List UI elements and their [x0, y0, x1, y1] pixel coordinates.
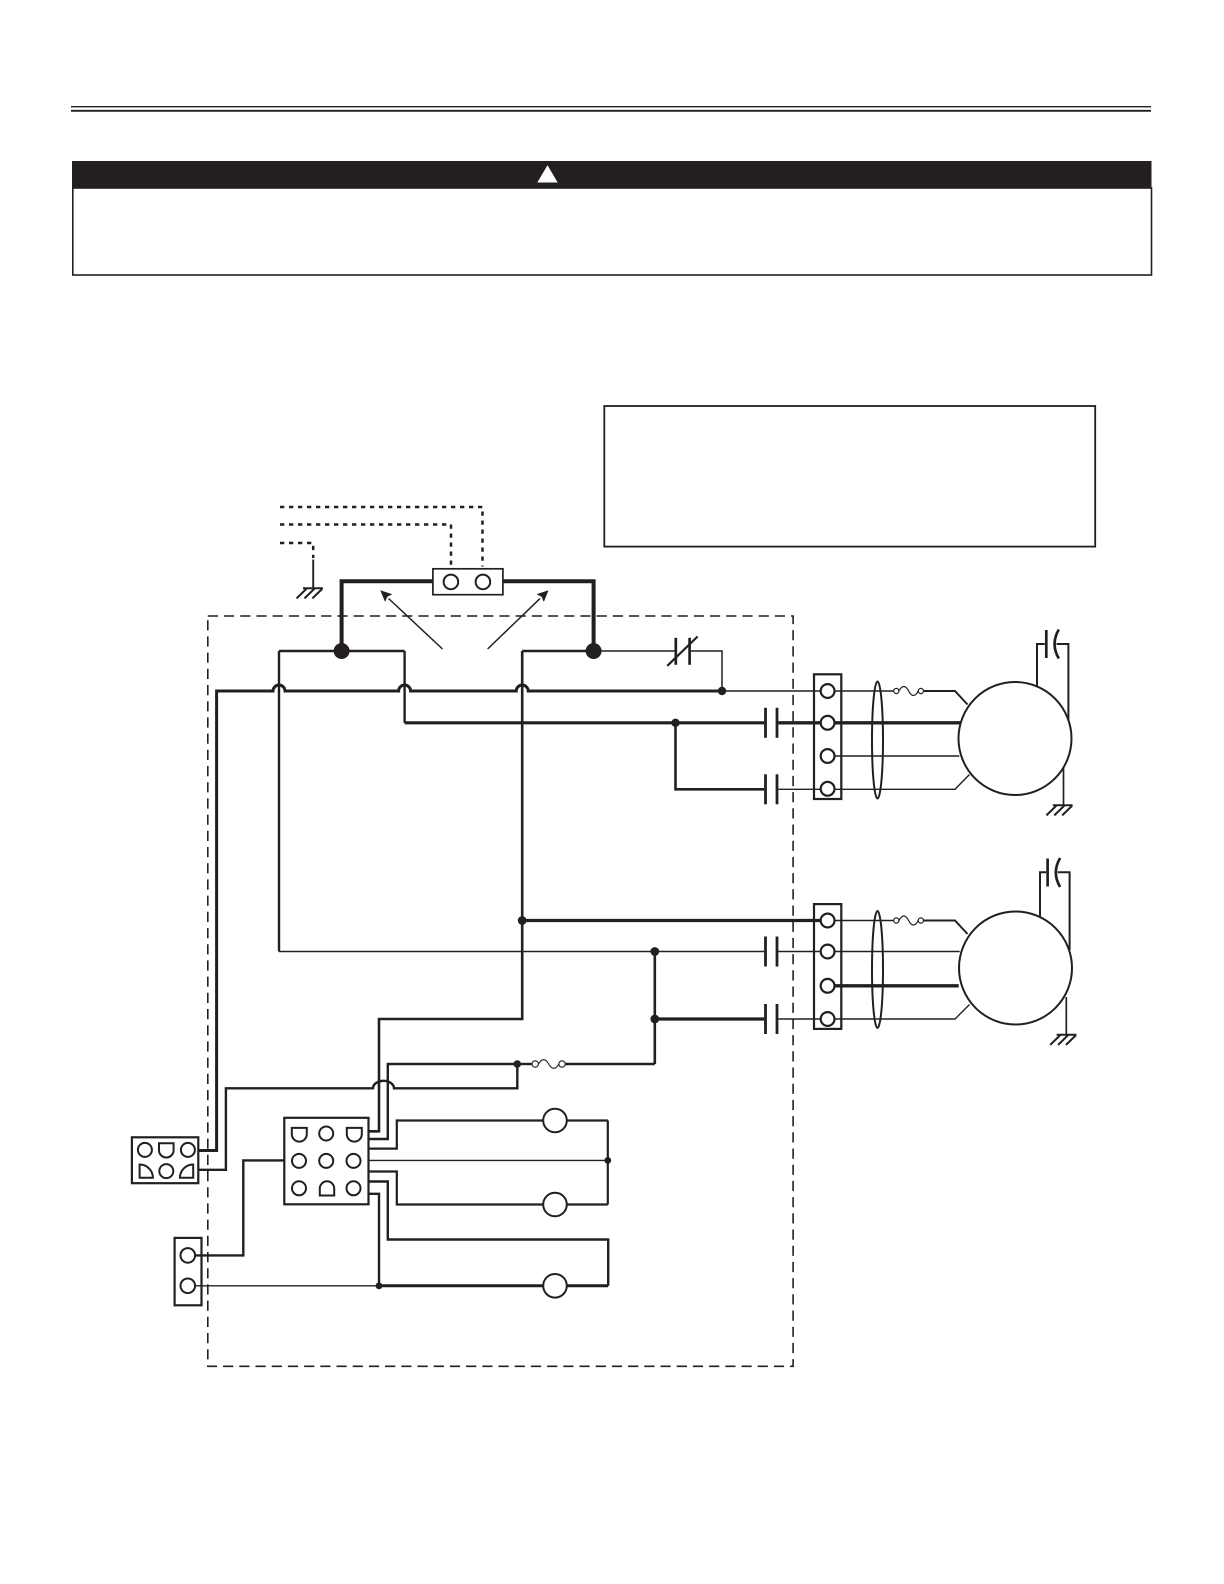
relay stub C to lamp1 — [369, 1121, 544, 1149]
harness loop ellipse 2 — [872, 911, 883, 1028]
wire: J4 down to J5 and to fuse line — [653, 952, 656, 1065]
relay pin r1c3 (keyed) — [347, 1128, 362, 1142]
relay pin r2c1 — [292, 1154, 306, 1168]
node J6 (fuse line tap) — [514, 1060, 522, 1068]
ground symbol (top left) — [297, 588, 323, 598]
wire: CN2 pin1 to relay row2 — [195, 1160, 284, 1255]
note box — [604, 406, 1095, 547]
dotted leader line 2 — [280, 525, 451, 567]
right rail (lamp1-lamp2) — [607, 1121, 609, 1205]
node L1 (left junction dot) — [334, 643, 350, 659]
wire: CN2 pin2 to lamp3 line (thin) — [195, 1285, 376, 1287]
lamp 2 — [543, 1193, 567, 1217]
wire TB1 row3 to motor1 — [834, 755, 959, 757]
wire: motor2 row2 thin from left vertical — [279, 951, 764, 953]
node J7 (rail tap) — [604, 1157, 611, 1164]
feed wire right (thick) — [503, 581, 594, 652]
lamp 1 — [543, 1109, 567, 1133]
wire fuse to motor2 (with bend) — [924, 921, 968, 935]
CN2 pin 2 — [181, 1279, 196, 1294]
CN6 pin r1c3 — [181, 1143, 195, 1157]
thermal cutout wire out — [691, 651, 722, 691]
connector CN2 (2-pin) — [175, 1238, 202, 1305]
wire: C1b to terminal row4 and motor1 — [778, 775, 969, 790]
node J2 (motor1 row4 tap) — [671, 719, 679, 727]
wire: C2b to terminal row4 and motor2 — [778, 1005, 969, 1020]
arrow left — [389, 599, 443, 650]
dashed enclosure box — [208, 616, 793, 1366]
wire TB2 row3 to motor2 (thick) — [834, 984, 959, 987]
relay pin r2c3 — [347, 1154, 361, 1168]
node J8 (lamp3 line tap) — [376, 1282, 383, 1289]
dotted leader line 3 — [280, 543, 313, 558]
TB2 terminal 2 — [821, 945, 835, 959]
power connector pin 1 — [444, 575, 459, 590]
relay stub E to lamp2 — [369, 1172, 544, 1205]
right node bracket wire — [522, 650, 593, 652]
wire lamp2 to right rail — [567, 1203, 608, 1205]
relay block (9-pin) — [284, 1118, 368, 1205]
motor1 ground symbol — [1046, 805, 1072, 815]
feed wire left (thick) — [342, 581, 433, 652]
node J4 (upper dot on x=654.8) — [650, 947, 659, 956]
motor2 ground lead — [1065, 997, 1067, 1035]
relay pin r3c2 (keyed) — [320, 1181, 334, 1195]
terminal block TB2 — [814, 904, 841, 1029]
relay pin r1c1 (keyed) — [292, 1128, 307, 1142]
wire: C1a to terminal row2 and motor1 (thick) — [778, 721, 960, 724]
lamp 3 — [543, 1274, 567, 1298]
motor2 run capacitor — [1040, 858, 1070, 950]
warning banner bar — [72, 161, 1152, 188]
TB2 terminal 3 — [821, 979, 835, 993]
node J1 (bus to terminal row1) — [718, 687, 726, 695]
TB1 terminal 3 — [821, 749, 835, 763]
ground lead (top left) — [312, 560, 314, 589]
TB2 terminal 1 — [821, 914, 835, 928]
motor1 ground lead — [1063, 768, 1065, 805]
power connector (top) — [433, 569, 503, 595]
relay row2 thin wire to rail — [369, 1159, 608, 1161]
capacitor C2b (motor2 row4 disconnect) — [766, 1004, 778, 1034]
CN6 pin r1c2 (keyed) — [159, 1143, 174, 1157]
thermal cutout wire in — [594, 650, 675, 652]
thermal fuse F3 — [894, 916, 924, 925]
relay stub G down to lamp3 line — [369, 1194, 380, 1286]
connector CN6 (6-pin) — [132, 1137, 198, 1183]
TB1 terminal 2 — [821, 716, 835, 730]
CN6 pin r2c3 (keyed) — [180, 1165, 193, 1178]
node J5 (lower dot on x=654.8) — [650, 1015, 659, 1024]
relay stub F to lamp3 rail — [369, 1182, 609, 1286]
terminal block TB1 — [814, 674, 841, 799]
relay pin r1c2 — [319, 1127, 333, 1141]
relay pin r3c3 — [347, 1181, 361, 1195]
wire: motor2 row4 from J5 (thick) — [655, 1017, 764, 1020]
node J3 (motor2 line1 tap) — [518, 916, 527, 925]
TB2 terminal 4 — [821, 1012, 835, 1026]
motor 1 — [959, 682, 1072, 795]
relay pin r2c2 — [319, 1154, 333, 1168]
lamp3 line (thick) — [379, 1284, 543, 1287]
node R1 (right junction dot) — [586, 643, 602, 659]
TB1 terminal 1 — [821, 684, 835, 698]
capacitor C1b (motor1 row4 disconnect) — [766, 774, 778, 804]
arrow right — [488, 599, 540, 649]
CN6 pin r2c2 — [159, 1164, 173, 1178]
CN6 pin r2c1 (keyed) — [140, 1165, 153, 1178]
left node bracket wire — [279, 650, 405, 652]
relay pin r3c1 — [292, 1181, 306, 1195]
wire fuse to motor1 (with bend) — [924, 691, 968, 705]
wire: J6 down to connector CN6 row2 (with hop) — [198, 1064, 517, 1170]
harness loop ellipse 1 — [872, 682, 883, 799]
wire: J2 down to row4 — [676, 723, 765, 790]
wire: C2a to terminal row2 and motor2 — [778, 951, 959, 953]
motor 2 — [959, 912, 1072, 1025]
wire: right node long vertical branch — [369, 651, 523, 1131]
wire: left node right branch down — [403, 651, 405, 723]
TB1 terminal 4 — [821, 782, 835, 796]
wire: fuse line (relay to J5 via fuse F2) — [369, 1064, 516, 1139]
power connector pin 2 — [476, 575, 491, 590]
main bus wire with crossover hops — [198, 685, 718, 1151]
capacitor C2a (motor2 row2 disconnect) — [766, 937, 778, 967]
CN2 pin 1 — [181, 1248, 196, 1263]
header double rule — [71, 107, 1151, 111]
thermal fuse F1 — [894, 687, 924, 696]
wire: motor2 row1 from tap J3 (thick) — [522, 919, 827, 922]
wire lamp1 to right rail — [567, 1119, 608, 1121]
thermal cutout (bars with slash) — [667, 637, 697, 666]
dotted leader line 1 — [280, 507, 483, 567]
warning body box — [73, 188, 1152, 275]
wire lamp3 to rail corner — [567, 1284, 608, 1287]
CN6 pin r1c1 — [138, 1143, 152, 1157]
capacitor C1a (motor1 row2 disconnect) — [766, 708, 778, 738]
wire: bus dot to terminal block 1 row1 — [722, 690, 893, 692]
motor2 ground symbol — [1050, 1035, 1076, 1045]
wire: left node to motor2 row2 branch (vertical) — [278, 651, 280, 952]
thermal fuse F2 — [517, 1060, 655, 1069]
motor1 run capacitor — [1037, 630, 1068, 720]
wire TB2 row1 to fuse — [828, 920, 894, 922]
motor1 row2 wire (thick) — [405, 721, 765, 724]
warning triangle icon — [537, 165, 557, 182]
